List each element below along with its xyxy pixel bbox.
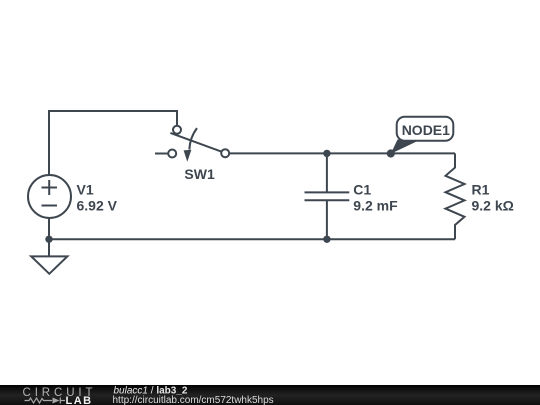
svg-text:SW1: SW1 xyxy=(184,166,215,182)
svg-text:NODE1: NODE1 xyxy=(402,122,450,138)
svg-text:R1: R1 xyxy=(472,181,490,197)
svg-text:C1: C1 xyxy=(353,181,371,197)
svg-text:9.2 kΩ: 9.2 kΩ xyxy=(472,197,514,213)
svg-text:http://circuitlab.com/cm572twh: http://circuitlab.com/cm572twhk5hps xyxy=(113,395,274,405)
svg-text:6.92 V: 6.92 V xyxy=(77,197,118,213)
svg-text:V1: V1 xyxy=(77,181,94,197)
svg-text:9.2 mF: 9.2 mF xyxy=(353,197,398,213)
svg-text:LAB: LAB xyxy=(66,395,93,405)
